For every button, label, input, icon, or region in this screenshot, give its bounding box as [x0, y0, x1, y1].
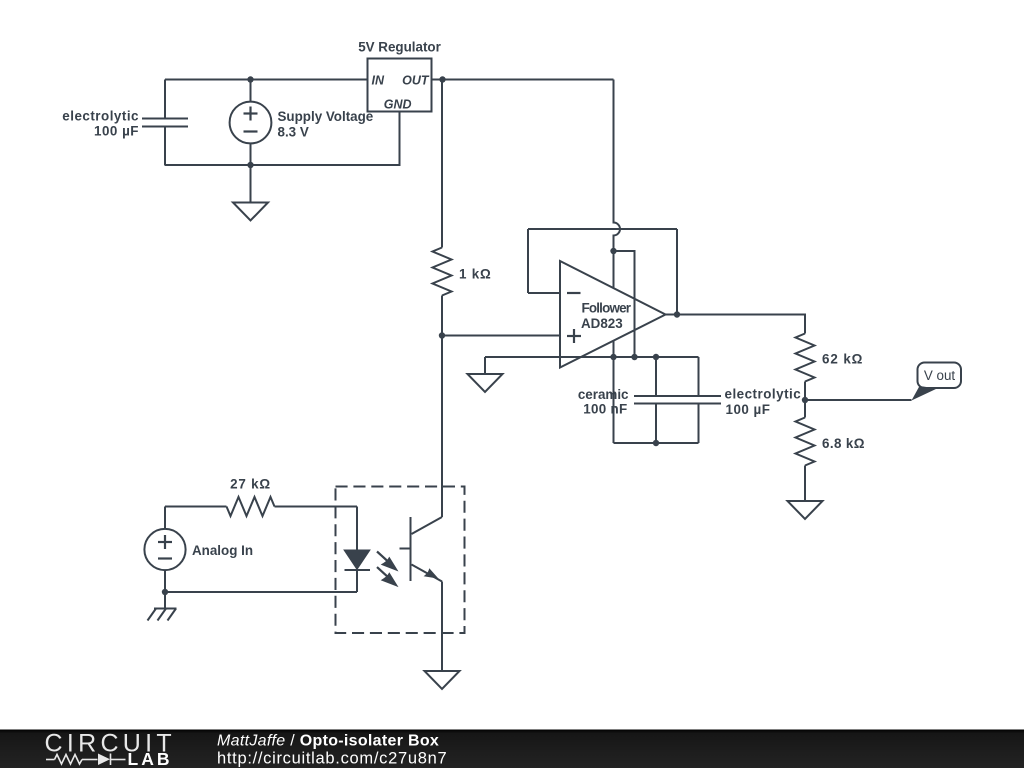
label C2 value ceramic 100nF	[578, 387, 629, 417]
svg-text:100 µF: 100 µF	[94, 124, 139, 139]
ground GND2 triangle	[468, 374, 503, 392]
label V1 name/value	[278, 109, 374, 140]
svg-text:http://circuitlab.com/c27u8n7: http://circuitlab.com/c27u8n7	[217, 750, 447, 768]
opto U3 LED anode lead	[356, 507, 358, 551]
logo diode cathode bar	[110, 754, 112, 766]
logo schematic doodle wire left	[46, 754, 126, 766]
op-amp U1 V+ pin	[613, 251, 615, 288]
svg-text:Analog In: Analog In	[192, 543, 253, 558]
resistor R4 27k zigzag horizontal	[227, 497, 275, 516]
wire: R4 to opto LED	[275, 506, 358, 508]
opto U3 LED triangle	[345, 551, 369, 569]
capacitor C1 electrolytic 100uF - top lead	[164, 80, 166, 119]
ground GND4 hatch 1	[148, 609, 157, 621]
V2 minus sign	[158, 557, 172, 559]
node: C2 bottom junction	[653, 440, 659, 446]
ground GND4 earth stub	[164, 592, 166, 609]
label U1 name Follower AD823	[581, 301, 632, 332]
opto U3 LED cathode lead	[356, 570, 358, 592]
node: junction opamp plus input	[439, 332, 445, 338]
voltage source V1 circle	[230, 102, 272, 144]
footer bar	[0, 730, 1024, 768]
opto U3 light arrow 1	[377, 552, 399, 572]
node: junction at OUT pin	[439, 76, 445, 82]
logo wire mid	[82, 759, 98, 761]
svg-text:electrolytic: electrolytic	[62, 109, 139, 124]
ground rail wire	[485, 356, 699, 358]
svg-text:100 µF: 100 µF	[726, 402, 771, 417]
resistor R1 1k zigzag	[433, 248, 452, 296]
wire: 5V down to R1	[441, 80, 443, 248]
svg-text:Follower: Follower	[582, 301, 632, 316]
node: jog wire on rail	[631, 354, 637, 360]
wire: plus input of op-amp	[442, 335, 560, 337]
opto U3 transistor base stub	[400, 548, 411, 550]
svg-text:IN: IN	[372, 73, 385, 87]
ground GND1 triangle	[233, 203, 268, 221]
wire: 5V vertical with hop over feedback	[614, 80, 621, 252]
ground GND5 triangle	[425, 671, 460, 689]
flag V out pointer	[912, 386, 938, 401]
ground GND1 stub	[250, 165, 252, 203]
wire: bottom rail of supply loop	[165, 164, 400, 166]
svg-text:V out: V out	[924, 368, 956, 383]
node: junction V2 bottom	[162, 589, 168, 595]
resistor R2 62k zigzag	[796, 334, 815, 382]
svg-text:6.8 kΩ: 6.8 kΩ	[822, 436, 865, 451]
svg-text:62 kΩ: 62 kΩ	[822, 352, 863, 367]
wire: feedback right vertical	[676, 229, 678, 315]
wire: R2 bottom to Vout node	[804, 382, 806, 401]
logo wire right	[111, 759, 126, 761]
logo resistor zigzag	[55, 755, 83, 765]
voltage source V1 bottom lead	[250, 144, 252, 166]
wire: R3 bottom to ground	[804, 466, 806, 502]
ground GND4 hatch 2	[158, 609, 167, 621]
svg-text:5V Regulator: 5V Regulator	[358, 40, 441, 55]
svg-text:AD823: AD823	[581, 316, 623, 331]
opto U3 transistor collector diagonal	[412, 517, 443, 534]
svg-text:OUT: OUT	[402, 73, 430, 87]
ground GND4 hatch 3	[168, 609, 177, 621]
opto U3 dashed package box	[336, 487, 465, 634]
opto U3 light arrow 2	[377, 567, 399, 587]
wire: R1 bottom down to opto collector	[441, 296, 443, 518]
voltage source V2 Analog In top lead	[164, 507, 166, 530]
op-amp U1 output stub	[666, 314, 678, 316]
node: V- on rail	[610, 354, 616, 360]
svg-text:8.3 V: 8.3 V	[278, 125, 309, 140]
capacitor C1 plates	[142, 119, 188, 127]
wire: feedback minus pin	[528, 292, 560, 294]
capacitor C2 bottom lead	[655, 404, 657, 444]
wire: op-amp output to R2	[677, 315, 805, 334]
capacitor C3 top lead from rail corner	[698, 357, 700, 396]
flag V out box	[918, 363, 962, 389]
capacitor C1 bottom lead	[164, 127, 166, 166]
wire: supply top rail from C1 to regulator IN	[165, 79, 368, 81]
wire: feedback top	[528, 228, 677, 230]
node: output junction	[674, 311, 680, 317]
resistor R3 6.8k zigzag	[796, 418, 815, 466]
svg-text:Supply Voltage: Supply Voltage	[278, 109, 374, 124]
opto U3 transistor emitter arrowhead	[424, 568, 439, 578]
op-amp U1 triangle	[560, 261, 666, 368]
opto U3 emitter lead down	[441, 582, 443, 672]
V1 plus sign	[244, 107, 258, 121]
label C1 value	[62, 109, 139, 139]
wire: Vout node to R3	[804, 400, 806, 418]
capacitors C2/C3 shared plates	[634, 396, 721, 404]
svg-text:MattJaffe / Opto-isolater Box: MattJaffe / Opto-isolater Box	[217, 733, 439, 750]
wire: jog from V+ node down to ground rail	[614, 251, 635, 357]
wire: Analog In top to R4	[165, 506, 227, 508]
svg-text:LAB: LAB	[128, 749, 173, 768]
opto U3 transistor base bar	[410, 517, 412, 581]
label C3 value electrolytic 100uF	[725, 387, 802, 418]
svg-text:ceramic: ceramic	[578, 387, 629, 402]
node: C2 top on rail	[653, 354, 659, 360]
svg-text:100 nF: 100 nF	[583, 402, 627, 417]
wire: feedback left vertical	[527, 229, 529, 293]
node: Vout junction	[802, 397, 808, 403]
wire: Vout node to flag	[805, 399, 912, 401]
capacitor C2 ceramic top lead	[655, 357, 657, 396]
voltage source V1 Supply Voltage - top lead	[250, 80, 252, 102]
wire: regulator OUT to 5V corner	[432, 79, 614, 81]
wire: cap bottom rail	[614, 442, 699, 444]
logo diode triangle	[98, 754, 110, 766]
ground GND3 triangle	[788, 501, 823, 519]
opto U3 LED cathode bar	[345, 569, 371, 571]
svg-text:GND: GND	[384, 98, 412, 112]
wire: V2 bottom to opto LED cathode	[165, 591, 357, 593]
regulator U2 box 5V Regulator	[368, 59, 432, 112]
ground GND4 earth bar	[154, 608, 177, 610]
V2 plus sign	[158, 535, 172, 549]
svg-text:electrolytic: electrolytic	[725, 387, 802, 402]
node: junction V1 top	[247, 76, 253, 82]
voltage source V2 circle	[144, 529, 185, 570]
op-amp U1 plus marker	[567, 329, 581, 343]
op-amp U1 V- pin down through ground rail to cap bottom rail	[613, 341, 615, 444]
node: junction V1 bottom	[247, 162, 253, 168]
capacitor C3 bottom lead	[698, 404, 700, 444]
V1 minus sign	[244, 130, 258, 132]
regulator U2 GND pin wire	[399, 112, 401, 167]
node: V+ supply junction	[610, 248, 616, 254]
voltage source V2 bottom lead	[164, 570, 166, 592]
op-amp U1 minus marker	[567, 292, 581, 294]
svg-text:27 kΩ: 27 kΩ	[230, 477, 271, 492]
opto U3 transistor emitter diagonal	[412, 565, 443, 582]
ground GND2 stub	[484, 357, 486, 374]
svg-text:1 kΩ: 1 kΩ	[459, 267, 492, 282]
